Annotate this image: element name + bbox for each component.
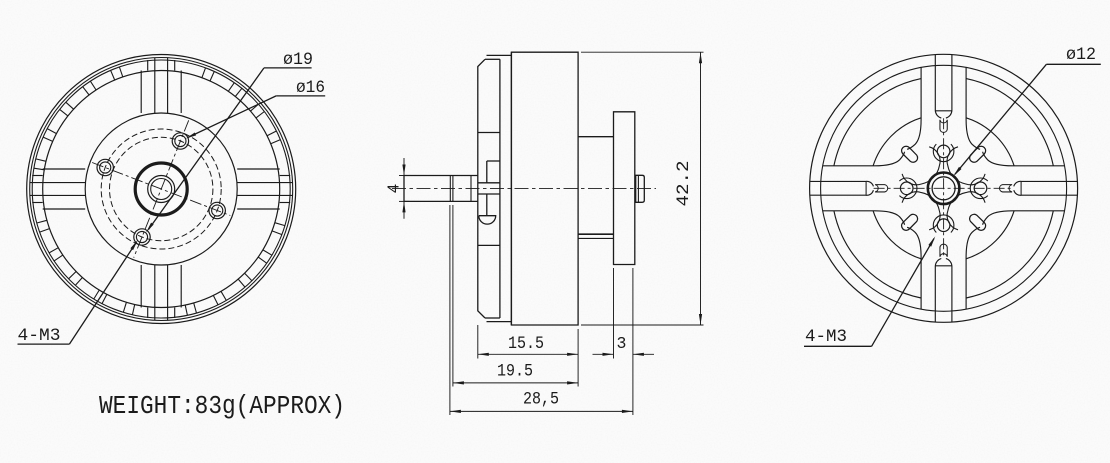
- dimension 42.2: [581, 51, 704, 53]
- center line (dash-dot): [392, 188, 656, 190]
- bell bottom edge (outer): [487, 321, 512, 323]
- svg-text:ø12: ø12: [1066, 45, 1096, 65]
- spoke slots and band edges (4 spokes): [983, 152, 1078, 225]
- hub circle: [85, 113, 237, 265]
- center boss outer circle: [928, 173, 960, 205]
- bell bottom edge (inner): [485, 317, 500, 319]
- bolt circle dia16 (dashed): [110, 137, 213, 240]
- center boss inner circle: [932, 177, 955, 200]
- svg-text:28,5: 28,5: [523, 390, 559, 410]
- dimension 28,5: [449, 205, 451, 415]
- svg-text:4-M3: 4-M3: [805, 327, 847, 347]
- bell inner plate line B: [499, 59, 501, 318]
- bell inner horizontal y132.5: [478, 132, 500, 134]
- svg-text:42.2: 42.2: [674, 161, 694, 207]
- center axis lines (dash-dot): [874, 187, 1014, 189]
- leader line dia12: [1046, 63, 1100, 65]
- outer bell circle (outermost): [27, 55, 296, 324]
- spokes (4) with narrow and wide bands: [30, 58, 293, 321]
- bell top edge (outer): [487, 54, 512, 56]
- dimension 15.5: [477, 325, 479, 359]
- diagonal slots (4): [970, 214, 986, 230]
- bearing boss thick ring: [135, 163, 187, 215]
- svg-text:4-M3: 4-M3: [18, 326, 61, 346]
- leader line 4-M3 (left view): [18, 343, 70, 345]
- rosette inner boundary (scallops around holes and boss): [947, 147, 985, 185]
- dimension 3 (flange): [613, 268, 615, 359]
- svg-text:ø16: ø16: [296, 78, 325, 98]
- right view: motor rear view: [810, 54, 1078, 322]
- rim inner circle: [821, 65, 1067, 311]
- M3 threaded holes (4): [974, 182, 987, 195]
- rim cooling slots: [34, 67, 285, 315]
- shaft c-clip lines: [449, 176, 451, 202]
- outer bell circle (second): [30, 58, 293, 321]
- svg-text:4: 4: [385, 183, 404, 193]
- dimension 4 (shaft dia): [403, 158, 405, 219]
- shaft hole inner circle: [151, 179, 172, 200]
- rim ring inner circle: [43, 71, 280, 308]
- rear hub bottom lines: [578, 233, 613, 235]
- bolt circle dia19 (dashed): [101, 129, 221, 249]
- svg-text:ø19: ø19: [283, 50, 313, 70]
- stator body rectangle: [511, 52, 578, 325]
- svg-text:WEIGHT:83g(APPROX): WEIGHT:83g(APPROX): [99, 392, 345, 421]
- mount flange plate: [614, 112, 635, 265]
- bell inner plate line A: [486, 161, 488, 216]
- svg-text:19.5: 19.5: [497, 362, 533, 382]
- bearing box: [478, 183, 500, 194]
- shaft hole outer circle: [148, 176, 175, 203]
- leader line 4-M3 (right view): [804, 345, 872, 347]
- rim ring outer circle: [32, 60, 290, 318]
- svg-text:3: 3: [617, 334, 627, 353]
- shaft outline: [404, 176, 478, 202]
- bell top edge (inner): [485, 58, 500, 60]
- shaft rear stub: [636, 175, 645, 202]
- leader line dia19: [264, 67, 312, 69]
- dimension 19.5: [452, 205, 454, 387]
- window arcs r74 and r112 (4 quadrants): [966, 79, 1053, 166]
- center axis lines (dash-dot, rotated 21deg): [92, 163, 230, 216]
- leader line dia16: [276, 95, 325, 97]
- left view: motor front view: [27, 55, 296, 324]
- magnet notch semicircle: [479, 216, 496, 224]
- mounting holes 4x M3: [97, 133, 225, 245]
- outer circle: [810, 54, 1078, 322]
- bell inner horizontal y245.4: [478, 244, 500, 246]
- bell inner step y161: [487, 160, 500, 162]
- svg-text:15.5: 15.5: [508, 334, 544, 354]
- bell front face: [478, 59, 485, 318]
- rear hub top line: [578, 136, 613, 138]
